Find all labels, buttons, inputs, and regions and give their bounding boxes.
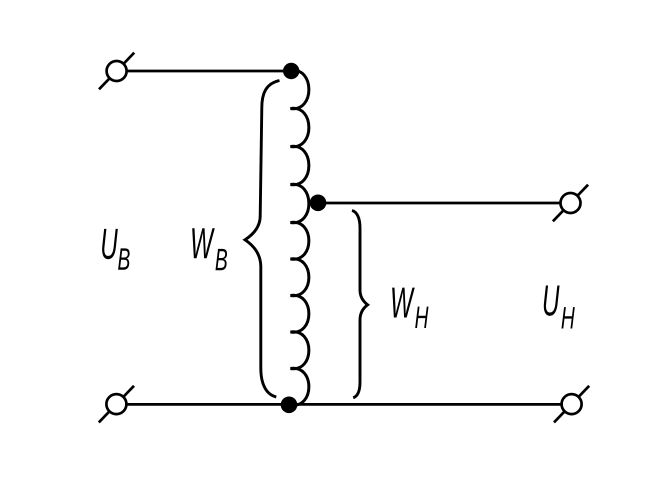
terminal T4 bottom-right bbox=[554, 386, 589, 423]
wire tap (middle tap to T2) bbox=[318, 202, 566, 205]
brace W_B (left curly brace spanning whole winding) bbox=[245, 81, 280, 397]
terminal T2 middle-right bbox=[553, 185, 588, 222]
junction dot bottom bbox=[281, 397, 298, 414]
wire top (T1 to top junction) bbox=[120, 70, 291, 73]
terminal T1 top-left bbox=[99, 53, 134, 90]
inductor winding L1 (autotransformer coil) bbox=[291, 70, 309, 405]
label W_B bbox=[192, 228, 227, 270]
label U_H bbox=[544, 285, 575, 328]
wire bottom (T3 to T4) bbox=[120, 403, 568, 406]
label U_B bbox=[102, 229, 130, 270]
terminal T3 bottom-left bbox=[99, 386, 134, 423]
junction dot top bbox=[283, 63, 299, 79]
junction dot middle tap bbox=[310, 195, 327, 212]
label W_H bbox=[392, 288, 428, 328]
brace W_H (right curly brace spanning lower winding) bbox=[352, 211, 368, 398]
